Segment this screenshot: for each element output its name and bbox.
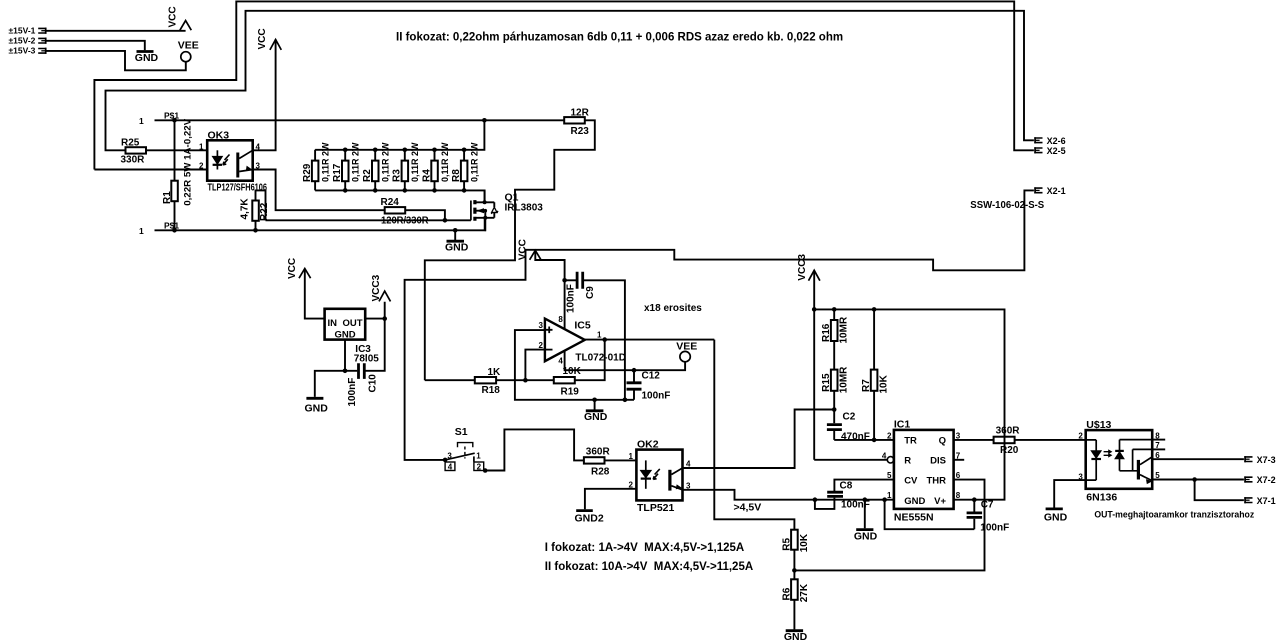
svg-text:DIS: DIS	[930, 456, 946, 467]
resistor R4 0,11R 2W	[421, 142, 450, 190]
wire OK3 pin4 to VCC	[253, 39, 276, 150]
svg-text:4: 4	[448, 463, 453, 472]
svg-text:R19: R19	[561, 386, 580, 397]
transistor Q1 IRL3803	[471, 192, 543, 221]
svg-text:R28: R28	[591, 466, 610, 477]
svg-text:R8: R8	[451, 169, 462, 182]
svg-text:1: 1	[476, 451, 481, 460]
resistor R18 1K	[425, 367, 526, 396]
wire U$13 pin5 to X7-2	[1152, 479, 1244, 481]
wire OK2 pin4 to C2/TR node	[683, 410, 835, 469]
svg-text:C10: C10	[367, 374, 378, 393]
resistor R16 10MR	[821, 309, 849, 369]
wire VCC net from X2-1 to op-amp area and S1	[405, 190, 1034, 460]
connector X2-5	[1034, 146, 1065, 156]
svg-text:VEE: VEE	[178, 39, 199, 51]
svg-text:1: 1	[199, 142, 204, 151]
junction P$1/R1	[172, 118, 177, 123]
junction GND line/bottom path	[882, 497, 887, 502]
svg-text:GND2: GND2	[575, 512, 604, 524]
capacitor C2 470nF	[827, 411, 870, 442]
svg-text:I fokozat: 1A->4V MAX:4,5V->1: I fokozat: 1A->4V MAX:4,5V->1,125A	[545, 542, 744, 554]
junction P$2/GND	[453, 228, 458, 233]
svg-text:IC5: IC5	[574, 320, 591, 332]
junction S1 pin3	[443, 458, 448, 463]
svg-text:8: 8	[558, 315, 563, 324]
junction R15/C2/OK2 path	[832, 407, 837, 412]
connector ±15V-2	[9, 36, 47, 46]
svg-text:VEE: VEE	[676, 341, 697, 353]
svg-text:X7-1: X7-1	[1257, 496, 1276, 506]
resistor R6 27K	[782, 570, 810, 629]
svg-text:IN: IN	[328, 318, 338, 329]
svg-text:C7: C7	[981, 500, 994, 511]
svg-text:C12: C12	[642, 371, 661, 382]
svg-text:x18 erosites: x18 erosites	[644, 303, 702, 314]
wire IC1 GND pin bottom path to C7	[885, 500, 975, 530]
svg-text:2: 2	[477, 463, 482, 472]
svg-text:VCC: VCC	[518, 239, 529, 260]
timer IC1 NE555N	[882, 418, 961, 523]
svg-text:1: 1	[139, 226, 144, 236]
resistor R22 4,7K	[240, 190, 270, 230]
wire IC3 OUT to VCC3	[365, 302, 385, 319]
wire R24 right to gate junction	[405, 210, 445, 220]
junction IC3 GND/C10	[343, 369, 348, 374]
junction gate/R24	[443, 218, 448, 223]
junction output/R19	[602, 337, 607, 342]
wire R28 to OK2 pin1	[605, 459, 637, 461]
svg-text:R1: R1	[162, 191, 173, 204]
svg-text:100nF: 100nF	[347, 378, 358, 407]
supply VCC3 arrow (IC3 out)	[371, 274, 390, 301]
svg-text:GND: GND	[1044, 512, 1068, 524]
svg-text:X7-3: X7-3	[1257, 455, 1276, 465]
resistor R20 360R	[994, 425, 1021, 455]
svg-text:R24: R24	[381, 197, 400, 208]
supply VCC arrow (IC3 input)	[287, 258, 311, 279]
capacitor C9 100nF	[565, 272, 625, 400]
wire IC3 GND pin	[344, 340, 346, 371]
svg-text:C8: C8	[840, 481, 853, 492]
svg-text:GND: GND	[584, 411, 608, 423]
ground GND (R6)	[784, 631, 808, 643]
svg-text:±15V-3: ±15V-3	[9, 46, 36, 56]
svg-text:S1: S1	[455, 426, 468, 438]
junctions shunt bottom bus	[343, 188, 467, 193]
svg-text:1: 1	[139, 116, 144, 126]
svg-text:OK2: OK2	[637, 438, 659, 450]
svg-text:360R: 360R	[586, 447, 611, 458]
svg-text:330R: 330R	[121, 154, 146, 165]
wire OK3 pin3 to R24	[253, 170, 385, 211]
wire IC5 output	[585, 339, 715, 341]
junction R5/R6/THR	[792, 568, 797, 573]
svg-text:>4,5V: >4,5V	[734, 502, 762, 514]
resistor R23 12R	[564, 108, 589, 138]
svg-text:VCC: VCC	[287, 258, 298, 279]
svg-text:10MR: 10MR	[839, 366, 850, 393]
wire ±15V-3 to VEE	[47, 51, 186, 70]
svg-text:Q: Q	[939, 436, 946, 447]
svg-text:C2: C2	[843, 411, 856, 422]
svg-text:±15V-1: ±15V-1	[9, 26, 36, 36]
junction VEE line/C12	[632, 368, 637, 373]
node P$2 (pin 1)	[139, 221, 179, 236]
ground GND (IC5)	[584, 400, 608, 423]
svg-text:THR: THR	[926, 476, 946, 487]
ground GND (U$13)	[1044, 509, 1068, 524]
wire OK2 pin3 to NE555 ground line	[683, 490, 894, 500]
junction bus/VCC3/R riser	[812, 307, 817, 312]
wire Q1 drain riser	[484, 190, 486, 202]
svg-text:12R: 12R	[571, 108, 590, 119]
wire ±15V-1 to VCC	[47, 30, 186, 32]
connector ±15V-3	[9, 46, 47, 56]
wire IC5 pin3 to ground line	[515, 330, 634, 400]
junction TR/R7	[872, 438, 877, 443]
resistor R8 0,11R 2W	[451, 142, 480, 190]
svg-text:8: 8	[956, 491, 961, 500]
connector X2-6	[1034, 136, 1065, 146]
regulator IC3 78l05	[325, 309, 380, 365]
svg-text:1: 1	[629, 452, 634, 461]
svg-text:R23: R23	[571, 126, 590, 137]
resistor R1	[162, 118, 194, 230]
junction V+/C7	[972, 497, 977, 502]
wire U$13 pin8 stub	[1152, 439, 1165, 441]
supply VCC3 arrow (NE555 bus)	[797, 254, 820, 310]
junction bus/R16	[832, 307, 837, 312]
wire S1 pin2 to R28	[484, 429, 584, 470]
svg-text:TR: TR	[904, 436, 917, 447]
wire shunt bottom bus	[315, 190, 485, 202]
svg-text:GND: GND	[305, 403, 329, 415]
ground GND (top left)	[135, 52, 159, 65]
svg-text:100nF: 100nF	[566, 284, 577, 313]
svg-text:1: 1	[887, 491, 892, 500]
svg-text:6N136: 6N136	[1086, 491, 1117, 503]
svg-text:TLP521: TLP521	[637, 502, 675, 514]
supply VCC arrow (IC5 pin 8)	[518, 239, 541, 260]
svg-text:R18: R18	[482, 385, 501, 396]
svg-text:R2: R2	[362, 169, 373, 182]
junction S1 pin2	[483, 468, 488, 473]
svg-text:4,7K: 4,7K	[240, 198, 251, 220]
svg-text:±15V-2: ±15V-2	[9, 36, 36, 46]
svg-text:120R/330R: 120R/330R	[381, 215, 429, 226]
optocoupler OK3 TLP127/SFH6106	[199, 129, 267, 193]
resistor R29 0,11R 2W	[302, 142, 331, 190]
svg-text:OK3: OK3	[208, 129, 230, 141]
svg-text:R22: R22	[259, 202, 270, 221]
wire IC5 pin2	[525, 350, 545, 381]
svg-text:0,11R 2W: 0,11R 2W	[381, 142, 391, 182]
svg-text:X2-5: X2-5	[1047, 146, 1066, 156]
junction P$2/R1	[172, 228, 177, 233]
resistor R15 10MR	[821, 366, 849, 423]
svg-text:78l05: 78l05	[354, 354, 379, 365]
resistor R7 10K	[861, 309, 889, 440]
junction GND line / GND symbol	[592, 398, 597, 403]
svg-text:3: 3	[539, 321, 544, 330]
svg-text:VCC: VCC	[168, 6, 179, 27]
svg-text:V+: V+	[934, 496, 946, 507]
svg-text:TLP127/SFH6106: TLP127/SFH6106	[208, 183, 268, 194]
svg-text:1: 1	[597, 330, 602, 339]
capacitor C7 100nF	[967, 500, 1010, 534]
supply VEE (IC5 pin 4)	[676, 341, 697, 362]
svg-text:P$1: P$1	[164, 111, 179, 121]
wire R23 staircase to op-amp sense	[425, 120, 595, 380]
svg-text:IC1: IC1	[894, 418, 911, 430]
connector X7-1	[1244, 496, 1275, 506]
junction GND line / C9 riser	[623, 398, 628, 403]
junction GND line/C8 jog	[813, 497, 818, 502]
junction bus/R7	[872, 307, 877, 312]
wire R25 to OK3 pin1	[146, 149, 207, 151]
svg-text:R25: R25	[121, 137, 140, 148]
ground GND2	[575, 511, 604, 525]
svg-text:0,11R 2W: 0,11R 2W	[440, 142, 450, 182]
wire IC5 output to R5	[714, 340, 794, 530]
svg-text:II fokozat: 10A->4V MAX:4,5V-: II fokozat: 10A->4V MAX:4,5V->11,25A	[545, 561, 753, 573]
optocoupler U$13 6N136	[1078, 419, 1160, 504]
capacitor C8 100nF	[815, 480, 894, 511]
wire ±15V-2 to GND	[47, 41, 145, 50]
svg-text:4: 4	[558, 356, 563, 365]
svg-text:GND: GND	[854, 531, 878, 543]
svg-text:GND: GND	[334, 329, 355, 340]
svg-text:2: 2	[1078, 432, 1083, 441]
connector ±15V-1	[9, 26, 47, 36]
wire Q1 source riser	[484, 218, 487, 231]
wire P$1 line	[155, 119, 565, 121]
svg-text:100nF: 100nF	[980, 523, 1009, 534]
svg-text:0,11R 2W: 0,11R 2W	[410, 142, 420, 182]
wire TR line	[834, 439, 894, 441]
wire X7-1 branch	[1195, 480, 1244, 501]
svg-text:VCC3: VCC3	[797, 254, 808, 281]
svg-text:3: 3	[447, 451, 452, 460]
junction R18/R19/pin2	[523, 378, 528, 383]
svg-text:R29: R29	[302, 163, 313, 182]
wire U$13 pin3 to GND	[1054, 480, 1086, 508]
svg-text:NE555N: NE555N	[894, 512, 934, 524]
wire OK3 pin2 line	[94, 169, 207, 171]
svg-text:X7-2: X7-2	[1257, 475, 1276, 485]
svg-text:10K: 10K	[799, 533, 810, 552]
svg-text:GND: GND	[445, 242, 469, 254]
svg-text:C9: C9	[585, 286, 596, 299]
node P$1 (pin 1)	[139, 111, 179, 126]
resistor R24 120R/330R	[381, 197, 430, 227]
switch S1	[445, 426, 484, 472]
wire loop net 2 (R25 line to X2-6)	[106, 11, 1034, 151]
capacitor C12 100nF	[627, 370, 671, 401]
svg-text:R16: R16	[821, 323, 832, 342]
svg-text:R3: R3	[392, 169, 403, 182]
svg-text:100nF: 100nF	[841, 500, 870, 511]
wire U$13 pin7 stub	[1152, 448, 1165, 450]
svg-text:R17: R17	[332, 163, 343, 182]
wire IC1 Q to R20	[954, 439, 994, 441]
svg-text:R20: R20	[1000, 445, 1019, 456]
svg-text:100nF: 100nF	[642, 390, 671, 401]
svg-text:SSW-106-02-S-S: SSW-106-02-S-S	[970, 199, 1044, 211]
svg-text:10K: 10K	[878, 374, 889, 393]
connector X7-2	[1244, 475, 1275, 485]
optocoupler OK2 TLP521	[629, 438, 691, 514]
svg-text:2: 2	[199, 162, 204, 171]
supply VCC arrow (top left)	[168, 6, 192, 30]
svg-text:II fokozat: 0,22ohm párhuzamos: II fokozat: 0,22ohm párhuzamosan 6db 0,1…	[396, 32, 843, 44]
svg-text:R5: R5	[782, 537, 793, 550]
wire VCC3 bus to V+	[814, 309, 1004, 499]
svg-text:R15: R15	[821, 373, 832, 392]
svg-text:GND: GND	[784, 631, 808, 643]
resistor R28 360R	[584, 447, 611, 478]
svg-text:IRL3803: IRL3803	[505, 203, 544, 214]
svg-text:X2-1: X2-1	[1047, 186, 1066, 196]
wire IC1 THR to divider	[794, 480, 984, 571]
supply VEE (top left)	[178, 39, 199, 61]
wire shunt top bus	[315, 120, 484, 150]
svg-text:10MR: 10MR	[839, 316, 850, 343]
wire OK2 pin2 to GND2	[585, 489, 637, 510]
svg-text:OUT-meghajtoaramkor tranziszto: OUT-meghajtoaramkor tranzisztorahoz	[1094, 510, 1254, 520]
ground GND (IC3)	[305, 398, 329, 414]
svg-text:X2-6: X2-6	[1047, 136, 1066, 146]
wire VCC arrow to IC5 pin 8	[535, 251, 564, 329]
capacitor C10 100nF	[345, 319, 385, 407]
resistor R25	[121, 137, 147, 165]
supply VCC arrow (OK3 pin 4)	[257, 28, 281, 50]
wire R20 to U$13 pin2	[1015, 439, 1086, 441]
svg-text:0,11R 2W: 0,11R 2W	[470, 142, 480, 182]
svg-text:U$13: U$13	[1086, 419, 1111, 431]
svg-text:CV: CV	[904, 476, 918, 487]
wire R22 top to gate line	[266, 219, 471, 221]
svg-text:VCC3: VCC3	[371, 274, 382, 301]
svg-text:360R: 360R	[996, 425, 1021, 436]
junctions shunt top bus	[343, 148, 467, 153]
connector X7-3	[1244, 455, 1275, 465]
junction P$2/R22	[253, 228, 258, 233]
junction pin5/X7-1 branch	[1192, 477, 1197, 482]
svg-text:VCC: VCC	[257, 28, 268, 49]
svg-text:P$1: P$1	[164, 221, 179, 231]
svg-text:2: 2	[887, 431, 892, 440]
svg-text:0,11R 2W: 0,11R 2W	[351, 142, 361, 182]
svg-text:0,11R 2W: 0,11R 2W	[321, 142, 331, 182]
resistor R17 0,11R 2W	[332, 142, 361, 190]
wire VCC to IC3 IN	[305, 269, 325, 319]
wire IC3 GND to ground	[315, 371, 345, 397]
wire IC1 DIS stub	[954, 459, 965, 461]
svg-text:R6: R6	[782, 587, 793, 600]
svg-text:OUT: OUT	[342, 318, 362, 329]
svg-text:GND: GND	[135, 52, 159, 64]
op-amp IC5 TL072-01D	[539, 315, 626, 366]
wire IC1 R pin to VCC3	[814, 309, 894, 463]
svg-text:R7: R7	[861, 379, 872, 392]
svg-text:0,22R 5W 1A-0,22V: 0,22R 5W 1A-0,22V	[182, 118, 193, 206]
svg-text:TL072-01D: TL072-01D	[575, 353, 626, 364]
junction P$1/shunt riser	[482, 118, 487, 123]
wire U$13 pin6 to X7-3	[1152, 458, 1244, 460]
resistor R3 0,11R 2W	[392, 142, 421, 190]
resistor R2 0,11R 2W	[362, 142, 391, 190]
junction pin8/C9	[562, 278, 567, 283]
wire P$2 line to MOSFET source	[155, 218, 485, 231]
svg-text:27K: 27K	[799, 583, 810, 602]
ground GND (IC1)	[854, 500, 878, 543]
wire IC5 pin4 to VEE	[565, 351, 686, 370]
connector X2-1	[1034, 186, 1065, 196]
junction GND line/GND symbol	[863, 497, 868, 502]
resistor R5 10K	[782, 530, 810, 571]
wire loop net 1 (VEE area to X2-5 and OK3 pin2)	[94, 1, 1034, 169]
svg-text:R4: R4	[421, 169, 432, 182]
svg-text:GND: GND	[904, 496, 925, 507]
junction IC3 OUT	[382, 316, 387, 321]
svg-text:R: R	[904, 456, 911, 467]
ground GND (under Q1)	[445, 230, 469, 253]
resistor R19 10K	[525, 340, 604, 398]
svg-text:1K: 1K	[488, 367, 502, 378]
svg-text:2: 2	[539, 341, 544, 350]
